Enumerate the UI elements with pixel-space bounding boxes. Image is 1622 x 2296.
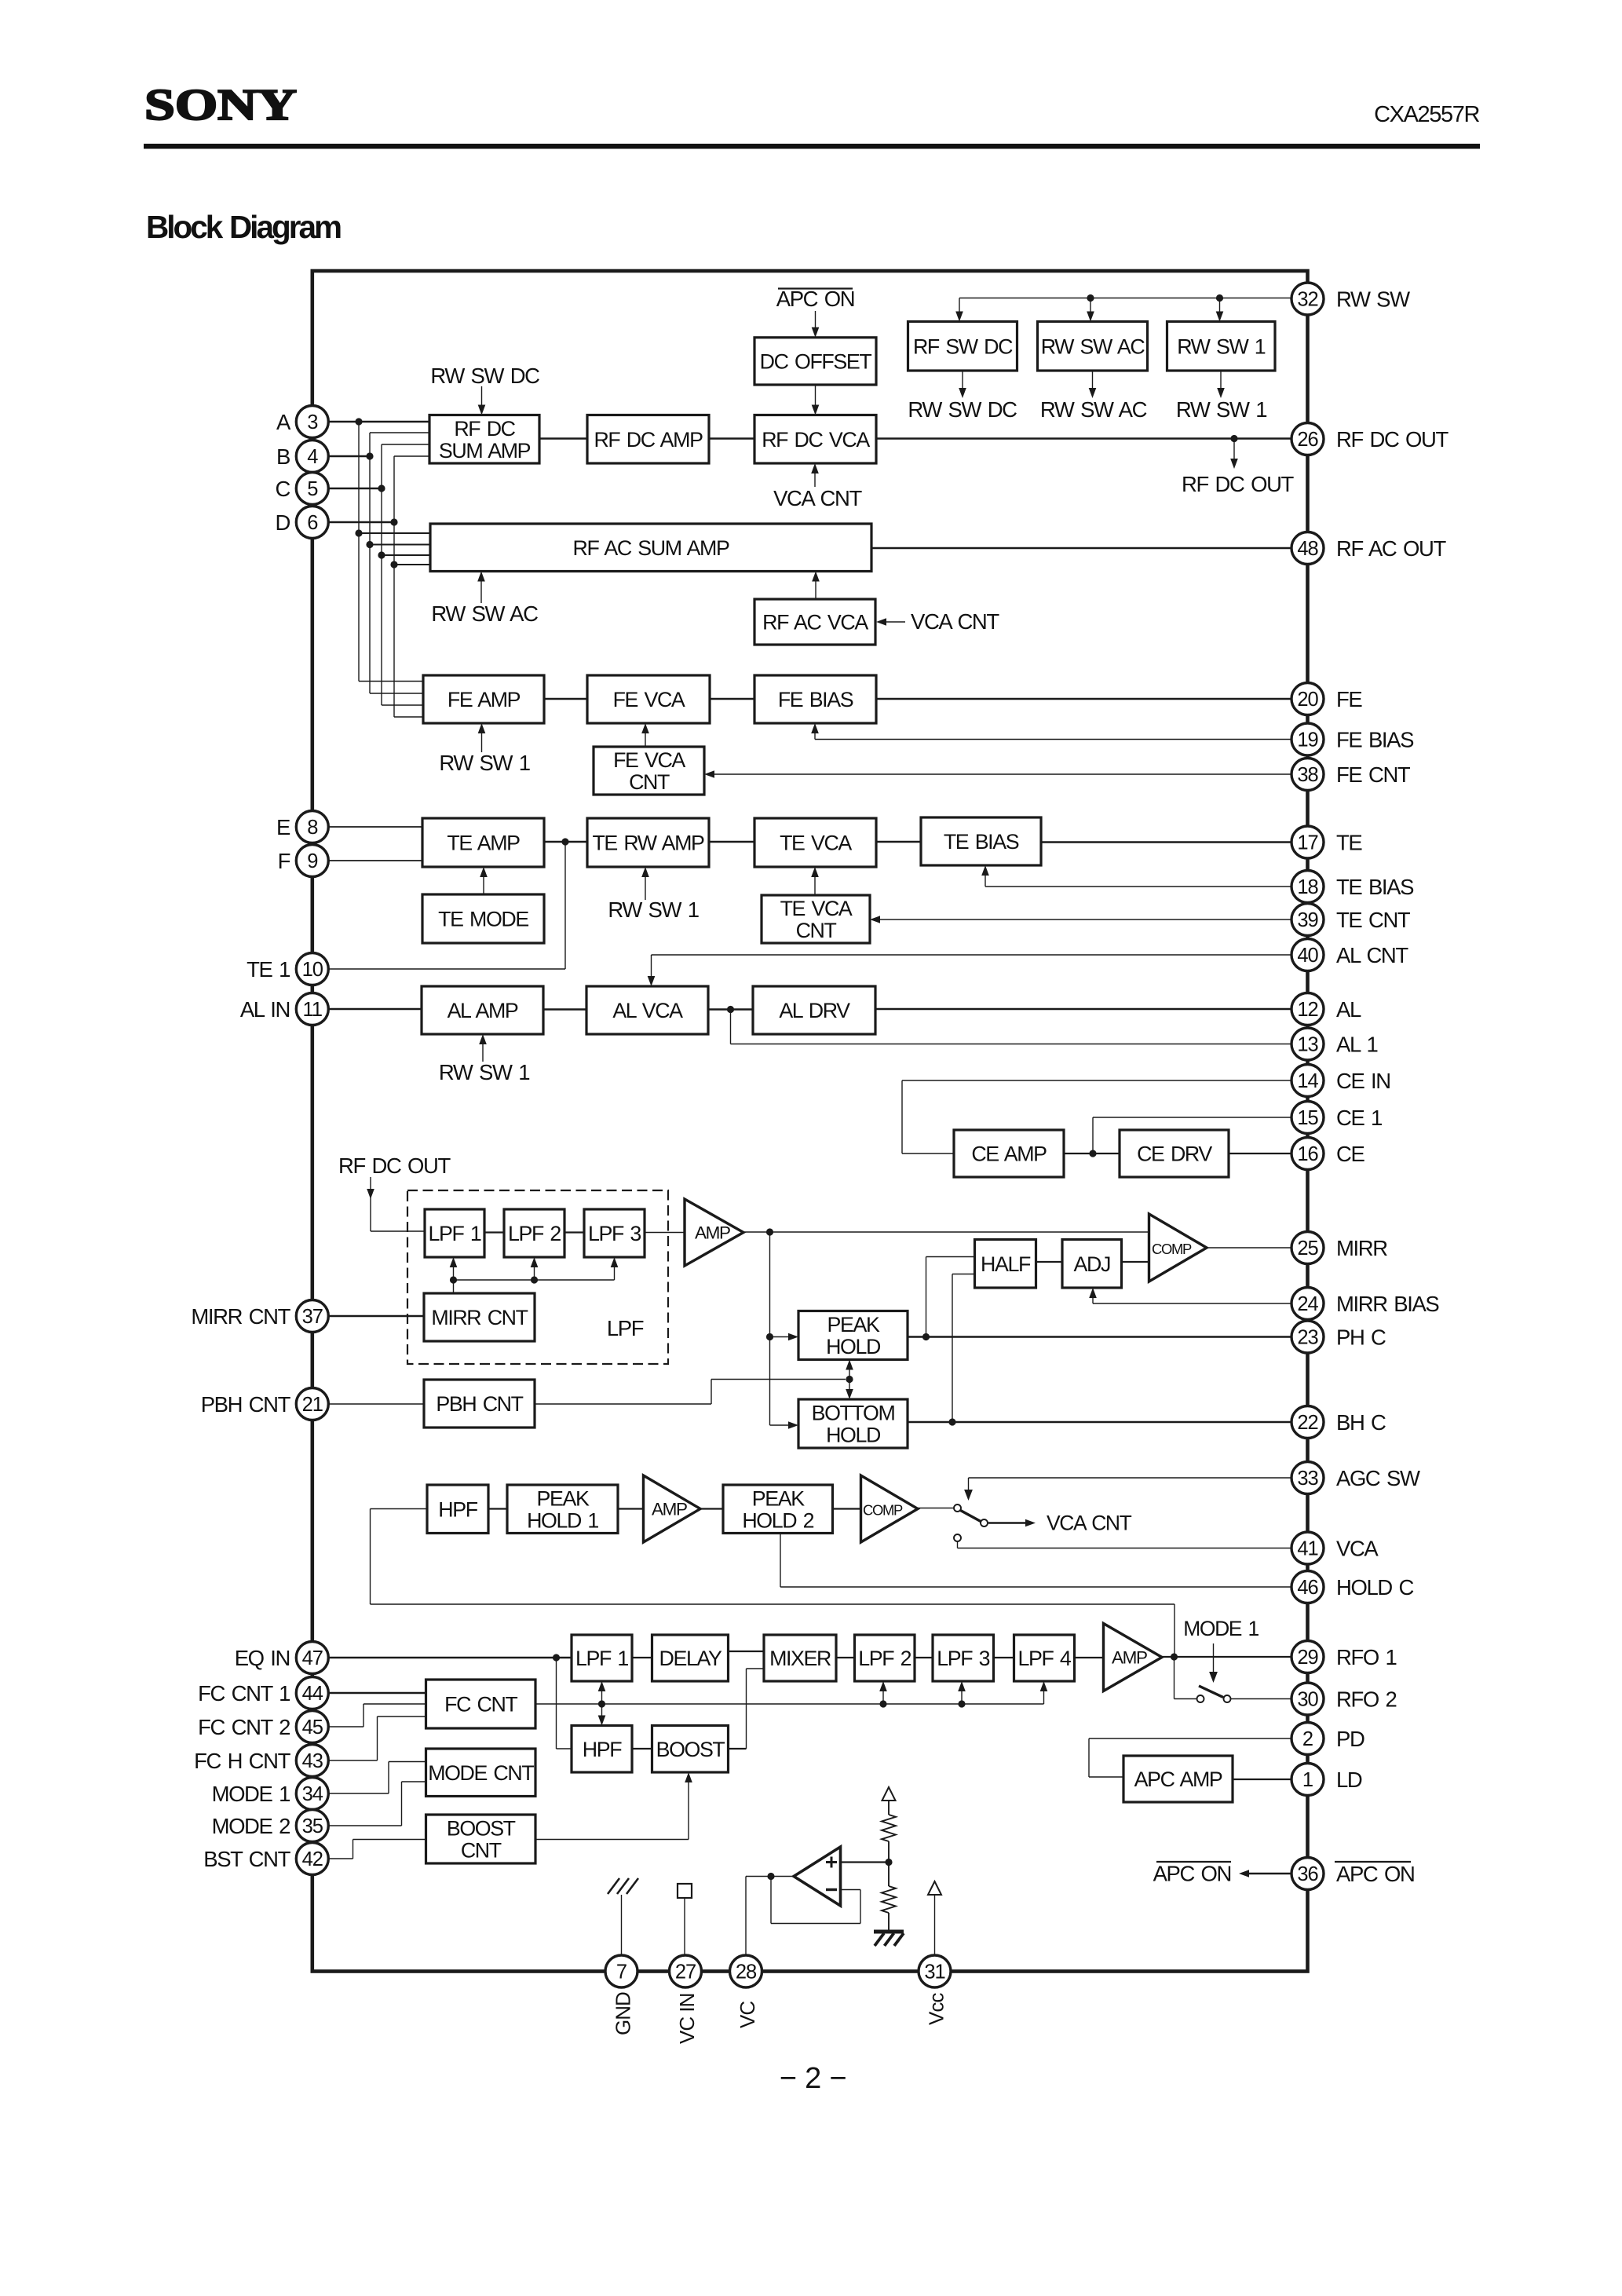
wire FE AMP to FE VCA — [544, 698, 587, 700]
block HPF (EQ) — [572, 1726, 632, 1773]
wire AL VCA to AL DRV — [708, 1008, 753, 1011]
pin 24 (MIRR BIAS) — [1291, 1288, 1324, 1320]
svg-text:AMP: AMP — [652, 1500, 687, 1519]
svg-text:RW SW DC: RW SW DC — [430, 364, 539, 388]
svg-text:11: 11 — [303, 999, 322, 1021]
wire MODE 1 control arrow — [1213, 1643, 1215, 1672]
wire switch SW2 to pin 30 RFO 2 — [1231, 1698, 1292, 1700]
svg-text:31: 31 — [924, 1961, 944, 1983]
svg-text:RW SW AC: RW SW AC — [431, 601, 538, 626]
wire pin 11 AL IN to AL AMP — [328, 1008, 422, 1011]
svg-text:E: E — [276, 815, 290, 839]
svg-text:LPF 1: LPF 1 — [575, 1647, 628, 1670]
wire AGC feedback from EQ amp — [371, 1508, 428, 1510]
pin 38 (FE CNT) — [1291, 759, 1324, 791]
pin 1 (LD) — [1291, 1764, 1324, 1796]
op-amp AMP U1 (LPF output amp) — [685, 1199, 743, 1266]
arrow APC ON output — [1249, 1873, 1292, 1875]
wire BOOST CNT to BOOST — [535, 1839, 689, 1841]
block RF AC VCA — [754, 599, 875, 645]
ground symbol below R2 — [874, 1930, 904, 1934]
wire RF AC SUM AMP to pin 48 — [871, 547, 1292, 550]
pin 30 (RFO 2) — [1291, 1683, 1324, 1715]
node A to RF AC — [355, 529, 362, 536]
svg-text:AL VCA: AL VCA — [612, 999, 683, 1022]
wire minus input feedback — [841, 1889, 861, 1891]
node RFO branch — [1171, 1653, 1178, 1660]
svg-text:D: D — [276, 510, 290, 535]
svg-text:26: 26 — [1297, 429, 1318, 451]
pin 47 (EQ IN) — [296, 1642, 328, 1674]
wire FE VCA to FE BIAS — [710, 698, 754, 700]
switch SW1 common contact — [954, 1504, 961, 1512]
svg-text:30: 30 — [1297, 1689, 1318, 1711]
svg-text:MODE 1: MODE 1 — [1183, 1617, 1259, 1640]
pin 21 (PBH CNT) — [296, 1388, 328, 1420]
wire BH C to HALF — [952, 1274, 953, 1423]
block LPF 3 (EQ) — [933, 1635, 994, 1681]
wire FE VCA CNT to FE VCA — [645, 732, 646, 747]
svg-text:41: 41 — [1297, 1538, 1317, 1560]
svg-text:BOTTOM: BOTTOM — [812, 1402, 895, 1425]
svg-text:RF DC OUT: RF DC OUT — [1336, 427, 1449, 452]
header rule — [144, 144, 1480, 149]
node BH C branch — [948, 1418, 955, 1425]
svg-text:CE AMP: CE AMP — [971, 1143, 1047, 1166]
pin 5 (C) — [296, 473, 328, 505]
block HALF — [975, 1240, 1036, 1289]
pin 6 (D) — [296, 506, 328, 539]
node pin4 branch — [366, 452, 373, 459]
block TE MODE — [422, 894, 544, 943]
pin 42 (BST CNT) — [296, 1843, 328, 1875]
block MIXER — [764, 1635, 836, 1681]
svg-text:FE AMP: FE AMP — [448, 688, 521, 711]
svg-text:MIRR CNT: MIRR CNT — [191, 1304, 290, 1329]
pin 41 (VCA) — [1291, 1532, 1324, 1564]
svg-text:23: 23 — [1297, 1327, 1318, 1349]
arrow into LPF 3 — [614, 1266, 616, 1280]
overline APC ON right label — [1335, 1861, 1411, 1863]
svg-text:FE BIAS: FE BIAS — [778, 688, 853, 711]
svg-text:RW SW AC: RW SW AC — [1040, 397, 1147, 422]
op-amp U6 plus input marker — [826, 1861, 837, 1863]
block TE VCA — [754, 818, 876, 867]
pin 40 (AL CNT) — [1291, 939, 1324, 971]
svg-text:46: 46 — [1297, 1577, 1318, 1599]
pin 44 (FC CNT 1) — [296, 1677, 328, 1709]
node D to RF AC — [390, 561, 397, 568]
wire pin 44 FC CNT 1 — [328, 1692, 426, 1694]
pin 19 (FE BIAS) — [1291, 723, 1324, 755]
wire pin 8 to TE AMP — [328, 826, 422, 828]
svg-text:A: A — [276, 410, 291, 434]
node FC CNT at LPF3 — [958, 1700, 965, 1707]
wire pin 33 AGC SW control — [969, 1477, 1292, 1479]
wire A to FE AMP — [359, 681, 423, 682]
wire pin4 to branch — [328, 455, 370, 458]
wire PEAK-BOTTOM double arrow — [849, 1369, 850, 1391]
block ADJ — [1062, 1240, 1122, 1289]
svg-text:BOOST: BOOST — [447, 1817, 516, 1841]
wire TE MODE to TE AMP — [483, 876, 484, 894]
node LPF1 cnt — [450, 1276, 457, 1283]
block TE BIAS — [921, 817, 1041, 865]
svg-text:1: 1 — [1302, 1769, 1313, 1791]
svg-text:PBH CNT: PBH CNT — [436, 1392, 523, 1416]
block MIRR CNT — [424, 1293, 535, 1341]
wire pin 37 MIRR CNT — [328, 1315, 424, 1317]
wire B to RF AC SUM AMP — [370, 544, 430, 546]
comparator COMP U2 (mirror) — [1149, 1214, 1207, 1281]
svg-text:APC ON: APC ON — [776, 287, 854, 311]
ground symbol (signal) above pin 7 — [621, 1895, 623, 1955]
svg-text:MODE 2: MODE 2 — [212, 1814, 290, 1838]
wire C to RF DC SUM AMP — [382, 444, 429, 445]
wire LPF 3 to LPF 4 — [994, 1657, 1014, 1658]
svg-text:SONY: SONY — [144, 81, 297, 130]
svg-text:VCA CNT: VCA CNT — [773, 486, 862, 510]
switch SW1 throw contact — [981, 1519, 988, 1526]
pin 26 (RF DC OUT) — [1291, 423, 1324, 455]
wire pin 35 MODE 2 — [328, 1825, 402, 1826]
wire B to RF DC SUM AMP — [370, 432, 429, 433]
svg-text:B: B — [276, 444, 290, 469]
svg-text:LD: LD — [1336, 1768, 1362, 1792]
svg-text:8: 8 — [307, 817, 318, 839]
svg-text:APC ON: APC ON — [1153, 1862, 1231, 1886]
wire pin 43 FC H CNT — [328, 1760, 378, 1761]
pin 33 (AGC SW) — [1291, 1462, 1324, 1494]
pin 7 (GND) — [605, 1955, 637, 1987]
wire pin 42 BST CNT — [329, 1858, 353, 1859]
wire RW SW into RW SW 1 — [1219, 298, 1221, 313]
wire AL AMP to AL VCA — [543, 1008, 586, 1011]
svg-text:APC AMP: APC AMP — [1134, 1768, 1222, 1791]
svg-text:FE VCA: FE VCA — [613, 688, 685, 711]
wire pin 45 FC CNT 2 — [328, 1726, 363, 1727]
wire LPF 1 to DELAY — [632, 1657, 652, 1658]
wire TE1 vertical — [564, 842, 566, 969]
svg-text:LPF 4: LPF 4 — [1018, 1647, 1072, 1670]
node to PEAK HOLD — [766, 1333, 773, 1340]
block RW SW 1 — [1167, 322, 1276, 371]
switch SW2 feed — [1174, 1657, 1175, 1699]
block FE VCA CNT — [594, 747, 704, 795]
svg-text:44: 44 — [302, 1683, 323, 1705]
pin 8 (E) — [296, 811, 328, 843]
svg-text:ADJ: ADJ — [1074, 1252, 1110, 1276]
svg-text:16: 16 — [1297, 1143, 1318, 1165]
switch SW1 blade — [960, 1510, 982, 1522]
svg-text:37: 37 — [302, 1306, 323, 1328]
wire pin 21 PBH CNT — [328, 1403, 424, 1405]
wire TE VCA CNT to TE VCA — [814, 876, 816, 895]
svg-text:FE: FE — [1336, 687, 1362, 711]
wire RF DC SUM AMP to RF DC AMP — [539, 437, 587, 440]
wire PEAK HOLD to pin 23 PH C — [908, 1336, 1292, 1338]
svg-text:39: 39 — [1297, 909, 1317, 931]
resistor R1 (upper divider) — [882, 1815, 896, 1841]
wire LPF 3 to AMP U1 — [645, 1232, 685, 1234]
svg-text:DELAY: DELAY — [659, 1647, 722, 1670]
node PH C branch — [922, 1333, 930, 1340]
wire R1 to tap — [888, 1841, 890, 1863]
pin 13 (AL 1) — [1291, 1028, 1324, 1060]
wire A to RF AC SUM AMP — [359, 532, 430, 534]
block TE RW AMP — [587, 818, 709, 867]
node C to RF AC — [378, 551, 385, 558]
wire LPF 2 to LPF 3 — [564, 1231, 584, 1233]
wire pin 32 RW SW bus — [959, 298, 1292, 299]
svg-text:AL IN: AL IN — [240, 997, 290, 1022]
wire C to RF AC SUM AMP — [382, 554, 430, 556]
block RF DC AMP — [587, 415, 709, 464]
pin 39 (TE CNT) — [1291, 904, 1324, 936]
pin 31 (Vcc) — [919, 1955, 951, 1987]
svg-text:BST CNT: BST CNT — [203, 1847, 290, 1871]
svg-text:HPF: HPF — [438, 1497, 477, 1521]
svg-text:TE RW AMP: TE RW AMP — [592, 832, 704, 855]
pin 36 (APC ON) — [1291, 1858, 1324, 1890]
wire MIRR detect vertical — [769, 1232, 771, 1425]
svg-text:RFO 1: RFO 1 — [1336, 1645, 1396, 1669]
svg-text:21: 21 — [302, 1394, 323, 1416]
wire pin 2 PD to APC AMP — [1089, 1738, 1292, 1739]
pin 18 (TE BIAS) — [1291, 871, 1324, 903]
op-amp AMP U5 (RF out) — [1104, 1624, 1163, 1691]
block LPF 1 — [425, 1209, 484, 1257]
block AL DRV — [753, 986, 875, 1034]
svg-text:LPF 1: LPF 1 — [429, 1222, 481, 1245]
wire D to RF DC SUM AMP — [394, 455, 429, 457]
svg-text:10: 10 — [302, 959, 323, 981]
block LPF 2 — [504, 1209, 564, 1257]
block RF DC SUM AMP — [429, 415, 539, 464]
wire HPF to BOOST — [632, 1748, 652, 1749]
svg-text:PEAK: PEAK — [827, 1313, 880, 1336]
svg-text:36: 36 — [1297, 1863, 1318, 1885]
block LPF 1 (EQ) — [572, 1635, 632, 1681]
svg-text:RW SW 1: RW SW 1 — [1176, 397, 1266, 422]
svg-text:22: 22 — [1297, 1412, 1317, 1434]
switch SW2 right contact — [1224, 1695, 1231, 1702]
svg-text:CE DRV: CE DRV — [1137, 1143, 1212, 1166]
wire PEAK HOLD 1 to AMP U3 — [618, 1508, 644, 1509]
pin 29 (RFO 1) — [1291, 1641, 1324, 1673]
svg-text:LPF 2: LPF 2 — [508, 1222, 561, 1245]
block BOOST — [652, 1726, 729, 1773]
svg-text:FC CNT 2: FC CNT 2 — [198, 1715, 290, 1739]
svg-text:TE AMP: TE AMP — [447, 832, 520, 855]
block AL AMP — [422, 986, 543, 1034]
svg-text:FE VCA: FE VCA — [613, 748, 685, 772]
pin 16 (CE) — [1291, 1138, 1324, 1170]
wire APC ON to DC OFFSET — [815, 311, 816, 328]
svg-text:19: 19 — [1297, 729, 1317, 751]
block AL VCA — [586, 986, 708, 1034]
node pin6 branch — [390, 518, 397, 525]
svg-text:F: F — [278, 849, 290, 873]
op-amp U6 minus input marker — [826, 1888, 837, 1891]
pin 11 (AL IN) — [296, 993, 328, 1026]
pin 35 (MODE 2) — [296, 1810, 328, 1842]
pin 22 (BH C) — [1291, 1406, 1324, 1439]
node FC CNT at LPF2 — [879, 1700, 886, 1707]
svg-text:20: 20 — [1297, 689, 1318, 711]
svg-text:GND: GND — [612, 1992, 635, 2035]
pin 10 (TE 1) — [296, 953, 328, 985]
wire bus C vertical — [381, 444, 382, 705]
svg-text:SUM AMP: SUM AMP — [439, 439, 531, 462]
pin 23 (PH C) — [1291, 1321, 1324, 1353]
wire bus A vertical — [358, 422, 360, 682]
arrow RF SW DC output — [962, 371, 963, 389]
svg-text:42: 42 — [302, 1848, 323, 1870]
op-amp U6 (VC buffer) — [794, 1847, 841, 1906]
svg-text:PEAK: PEAK — [537, 1486, 590, 1510]
wire pin 39 TE CNT to TE VCA CNT — [880, 919, 1292, 920]
svg-text:RF AC SUM AMP: RF AC SUM AMP — [573, 536, 729, 560]
pin 2 (PD) — [1291, 1723, 1324, 1755]
wire RW SW 1 into FE AMP — [481, 732, 483, 752]
wire BOTTOM HOLD to pin 22 BH C — [908, 1421, 1292, 1424]
svg-text:FE CNT: FE CNT — [1336, 762, 1411, 787]
svg-text:3: 3 — [307, 411, 318, 433]
pin 32 (RW SW) — [1291, 283, 1324, 315]
svg-text:RF AC OUT: RF AC OUT — [1336, 536, 1446, 561]
svg-text:CE IN: CE IN — [1336, 1069, 1390, 1093]
wire RF AC VCA to RF AC SUM AMP — [815, 580, 816, 600]
wire pin5 to branch — [328, 488, 382, 490]
node RW SW to RW SW AC — [1087, 294, 1094, 302]
svg-text:AL 1: AL 1 — [1336, 1033, 1377, 1057]
wire COMP U4 to switch SW1 — [918, 1508, 954, 1509]
wire MIRR CNT to LPF connector — [454, 1279, 615, 1281]
pin 28 (VC) — [730, 1955, 762, 1987]
svg-text:HOLD 2: HOLD 2 — [742, 1508, 813, 1532]
svg-text:HOLD 1: HOLD 1 — [527, 1508, 598, 1532]
switch SW2 left contact — [1197, 1695, 1204, 1702]
wire pin 19 FE BIAS to FE BIAS block — [815, 739, 1292, 740]
wire HALF to ADJ — [1036, 1261, 1063, 1263]
wire tap to R2 — [888, 1863, 890, 1887]
block FC CNT — [426, 1680, 536, 1728]
wire AMP U1 to COMP — [743, 1231, 1149, 1233]
svg-text:7: 7 — [616, 1961, 627, 1983]
svg-text:LPF 2: LPF 2 — [858, 1647, 911, 1670]
svg-text:9: 9 — [307, 850, 317, 872]
svg-text:35: 35 — [302, 1815, 323, 1837]
svg-text:VC IN: VC IN — [675, 1994, 699, 2044]
node RF DC OUT branch — [1230, 435, 1237, 442]
pin 34 (MODE 1) — [296, 1778, 328, 1810]
wire RW SW into RF SW DC — [959, 298, 960, 313]
node pin3 branch — [355, 418, 362, 425]
svg-text:MIXER: MIXER — [769, 1647, 831, 1670]
node hold bias junction — [846, 1376, 853, 1383]
wire CE DRV to pin 16 — [1229, 1153, 1292, 1154]
svg-text:HALF: HALF — [981, 1252, 1031, 1276]
block LPF 3 — [584, 1209, 645, 1257]
wire op-amp output to node — [771, 1876, 794, 1877]
svg-text:RFO 2: RFO 2 — [1336, 1687, 1396, 1712]
wire pin 41 VCA to switch — [957, 1541, 959, 1548]
svg-text:14: 14 — [1297, 1070, 1318, 1092]
VC IN terminal square — [684, 1898, 685, 1955]
pin 46 (HOLD C) — [1291, 1571, 1324, 1603]
svg-text:TE MODE: TE MODE — [438, 908, 528, 931]
svg-text:BH C: BH C — [1336, 1410, 1386, 1435]
svg-text:RW SW 1: RW SW 1 — [1177, 335, 1266, 358]
arrow RW SW AC output — [1092, 371, 1094, 389]
svg-text:MIRR CNT: MIRR CNT — [431, 1306, 528, 1329]
node FC CNT at LPF1 — [598, 1700, 605, 1707]
svg-text:6: 6 — [307, 512, 318, 534]
Vcc hollow arrow above pin 31 — [928, 1881, 941, 1895]
svg-text:43: 43 — [302, 1750, 323, 1772]
wire pin 15 CE 1 branch — [1093, 1117, 1292, 1118]
svg-text:BOOST: BOOST — [656, 1738, 725, 1761]
pin 20 (FE) — [1291, 683, 1324, 715]
svg-text:HOLD: HOLD — [826, 1335, 881, 1358]
svg-text:AMP: AMP — [695, 1223, 730, 1243]
wire pin 40 AL CNT to AL VCA — [652, 954, 1292, 956]
switch SW2 blade — [1199, 1686, 1223, 1698]
svg-text:12: 12 — [1297, 999, 1317, 1021]
svg-text:RW SW 1: RW SW 1 — [439, 751, 529, 775]
svg-text:MIRR BIAS: MIRR BIAS — [1336, 1292, 1439, 1316]
pin 37 (MIRR CNT) — [296, 1300, 328, 1333]
wire pin 24 MIRR BIAS to ADJ — [1093, 1303, 1292, 1304]
wire AMP U3 to PEAK HOLD 2 — [700, 1508, 723, 1509]
node RW SW to RW SW 1 — [1216, 294, 1223, 302]
svg-text:RF DC AMP: RF DC AMP — [594, 428, 703, 452]
svg-text:34: 34 — [302, 1783, 323, 1805]
svg-text:LPF 3: LPF 3 — [588, 1222, 641, 1245]
wire into PEAK HOLD — [770, 1336, 789, 1338]
block MODE CNT — [426, 1749, 536, 1797]
wire EQ IN to HPF — [556, 1658, 557, 1749]
arrow VCA CNT output — [988, 1522, 1025, 1524]
wire into BOTTOM HOLD — [770, 1424, 789, 1426]
node TE AMP output branch — [561, 838, 568, 845]
wire B to FE AMP — [370, 693, 423, 694]
node LPF2 cnt — [531, 1276, 538, 1283]
svg-text:CXA2557R: CXA2557R — [1374, 102, 1479, 127]
svg-text:AL DRV: AL DRV — [779, 999, 850, 1022]
block FE BIAS — [754, 675, 876, 723]
block APC AMP — [1123, 1756, 1233, 1802]
wire PH C to HALF — [926, 1257, 927, 1337]
wire TE BIAS to pin 17 — [1041, 841, 1292, 843]
pin 3 (A) — [296, 406, 328, 438]
wire pin 14 CE IN to CE AMP — [902, 1080, 1292, 1081]
node AMP U1 output branch — [766, 1228, 773, 1235]
overline APC ON output — [1156, 1861, 1231, 1863]
wire MIXER to LPF 2 — [836, 1657, 855, 1658]
wire RW SW DC into RF DC SUM AMP — [481, 386, 483, 406]
svg-text:RF DC OUT: RF DC OUT — [338, 1153, 451, 1178]
svg-text:RW SW 1: RW SW 1 — [439, 1060, 529, 1084]
svg-text:RF SW DC: RF SW DC — [913, 335, 1013, 358]
block PEAK HOLD 2 — [723, 1485, 833, 1534]
svg-text:CNT: CNT — [461, 1839, 502, 1863]
block RF SW DC — [908, 322, 1017, 371]
wire RW SW AC into RF AC SUM AMP — [480, 580, 482, 604]
svg-text:FC CNT 1: FC CNT 1 — [198, 1681, 290, 1706]
node pin5 branch — [378, 484, 385, 492]
